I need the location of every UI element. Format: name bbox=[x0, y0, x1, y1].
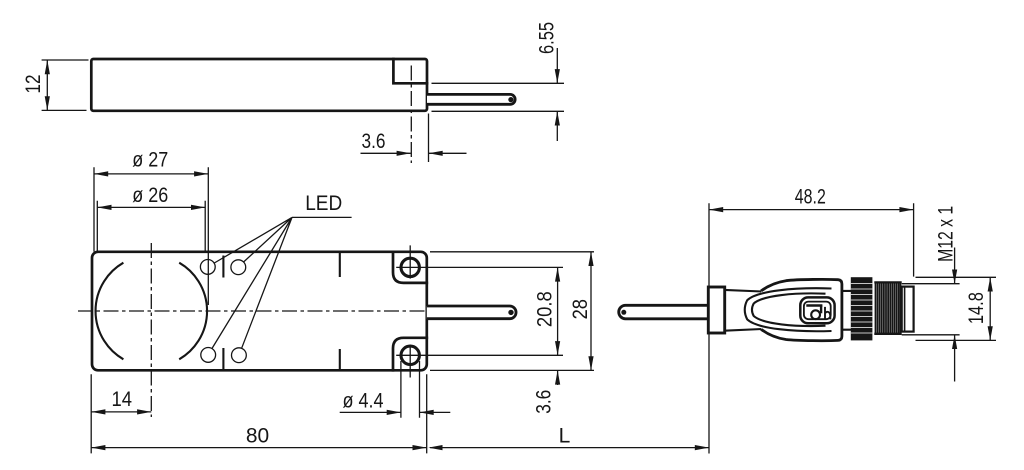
dimension 28 bbox=[430, 252, 594, 371]
svg-text:3.6: 3.6 bbox=[532, 390, 555, 414]
dimension 48.2 bbox=[709, 185, 914, 276]
dimension 6.55 bbox=[432, 22, 565, 141]
svg-text:14.8: 14.8 bbox=[965, 292, 988, 324]
svg-text:48.2: 48.2 bbox=[795, 185, 826, 208]
top view body outline bbox=[92, 252, 427, 370]
dimension 12 bbox=[22, 60, 88, 110]
connector nose bbox=[902, 287, 914, 332]
dimension diameter 27 bbox=[94, 149, 208, 306]
dimension M12 x 1 bbox=[902, 206, 960, 382]
bottom mounting lug bbox=[393, 338, 563, 378]
vertical centerline (circle center) bbox=[150, 243, 152, 417]
dimension diameter 4.4 bbox=[340, 361, 451, 418]
connector cable bbox=[619, 305, 711, 319]
dimension 80 bbox=[91, 374, 427, 453]
top mounting lug bbox=[393, 245, 563, 283]
connector extension line left (shared 48.2 / L) bbox=[708, 203, 710, 453]
boot back flange bbox=[708, 287, 724, 333]
neck between boot and nut bbox=[842, 291, 851, 330]
dimension 20.8 bbox=[533, 267, 560, 355]
LED label and leader lines bbox=[212, 192, 352, 348]
svg-text:L: L bbox=[559, 424, 571, 447]
sensing face circle arcs bbox=[96, 263, 208, 360]
svg-text:80: 80 bbox=[246, 424, 269, 447]
svg-text:ø 26: ø 26 bbox=[132, 184, 168, 207]
svg-text:LED: LED bbox=[305, 192, 342, 215]
svg-text:M12 x 1: M12 x 1 bbox=[934, 206, 957, 262]
dimension 14.8 bbox=[916, 277, 997, 340]
svg-text:12: 12 bbox=[22, 75, 45, 94]
dimension diameter 26 bbox=[97, 184, 205, 252]
boot body bbox=[761, 279, 842, 340]
svg-text:28: 28 bbox=[569, 299, 592, 319]
boot chevron inner bbox=[752, 293, 826, 326]
svg-text:14: 14 bbox=[111, 388, 132, 411]
P+F logo bbox=[800, 297, 834, 323]
dimension 14 bbox=[91, 374, 151, 453]
boot neck bbox=[725, 290, 763, 331]
side view body outline bbox=[91, 59, 427, 111]
svg-text:ø 27: ø 27 bbox=[132, 149, 168, 172]
svg-text:3.6: 3.6 bbox=[362, 130, 386, 153]
svg-text:ø 4.4: ø 4.4 bbox=[343, 389, 384, 412]
top view cable bbox=[427, 306, 516, 319]
side view cable bbox=[427, 94, 515, 104]
dimension 3.6 (bottom right) bbox=[532, 370, 560, 413]
dimension 3.6 (side view) bbox=[361, 114, 467, 163]
svg-text:20.8: 20.8 bbox=[533, 291, 556, 327]
horizontal centerline bbox=[78, 310, 432, 312]
boot chevron outer bbox=[745, 288, 832, 331]
dimension L bbox=[428, 424, 709, 450]
knurled coupling nut bbox=[851, 277, 873, 340]
body tick marks bbox=[223, 253, 339, 370]
LED hole circles bbox=[200, 260, 246, 363]
svg-text:6.55: 6.55 bbox=[535, 22, 558, 54]
side view notch centerline bbox=[410, 66, 412, 164]
M12 thread bbox=[874, 282, 901, 333]
side view cable exit notch bbox=[393, 59, 427, 83]
